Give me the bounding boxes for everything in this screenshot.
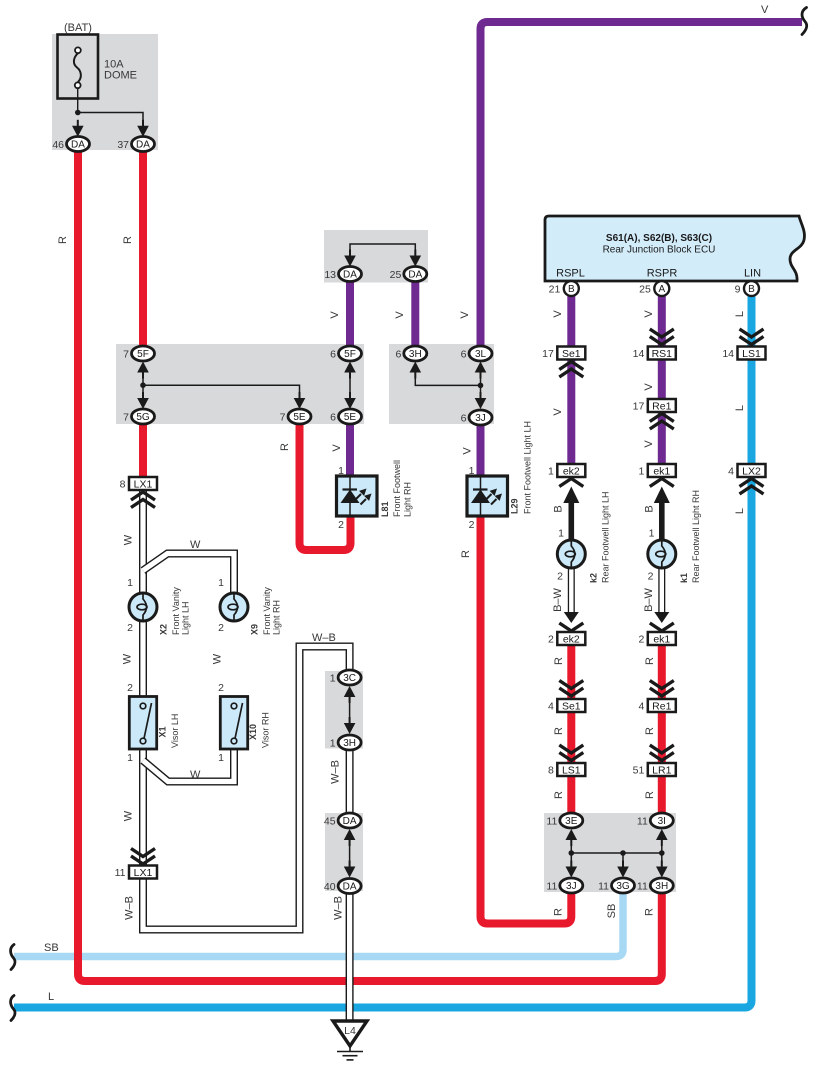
wire R 4-Re1 to 51-LR1: [658, 711, 666, 764]
gray block: junction connector 5F/5G/5E: [116, 344, 364, 424]
svg-text:1: 1: [649, 528, 655, 540]
wire W X2 to X1: [139, 620, 147, 697]
arrow up into 6-3L: [480, 366, 482, 379]
wire W-B 1-3H to 45-DA: [346, 748, 354, 814]
svg-text:2: 2: [648, 571, 654, 583]
connector oval 6 3L: [469, 346, 492, 361]
gray block: junction connector 3C/3H: [325, 671, 363, 749]
svg-text:3J: 3J: [475, 413, 486, 424]
gray block: fuse junction box DA: [52, 34, 158, 150]
junction dot 5F/5G/5E: [140, 382, 146, 388]
wire B-W bulb k1 to 2-ek1: [658, 567, 665, 614]
ECU pin 9 B: [744, 281, 759, 296]
connector oval 1 3H: [338, 735, 361, 750]
svg-text:DOME: DOME: [104, 70, 137, 82]
wire W vanity main LX1 to X2: [139, 491, 147, 594]
wire 7-5F to junction: [142, 372, 144, 398]
connector 4 Se1: [557, 699, 585, 712]
connector 11 LX1: [129, 866, 157, 879]
svg-text:V: V: [459, 311, 471, 319]
LED L29 Front Footwell Light LH: [467, 476, 508, 516]
svg-text:4: 4: [638, 701, 644, 713]
wire V 17-Re1 to 1-ek1: [658, 411, 666, 466]
junction dot fuse: [75, 110, 81, 116]
svg-text:5F: 5F: [344, 349, 356, 360]
connector 4 Re1: [648, 699, 676, 712]
wire V 13-DA to 6-5F: [346, 281, 354, 347]
svg-text:2: 2: [548, 634, 554, 646]
chevron above 4-Se1: [559, 681, 583, 689]
connector 1 ek1: [648, 464, 676, 477]
svg-text:DA: DA: [136, 140, 150, 151]
wire junction to 11-3I: [661, 840, 663, 853]
svg-text:6: 6: [330, 412, 336, 424]
svg-text:4: 4: [728, 466, 734, 478]
svg-text:Front Vanity: Front Vanity: [262, 587, 272, 635]
chevron B-W into 2-ek1: [650, 623, 674, 631]
wire B-W bulb k2 to 2-ek2: [568, 567, 575, 614]
wire 45-DA to 40-DA: [349, 840, 351, 866]
svg-text:3H: 3H: [409, 349, 422, 360]
svg-text:R: R: [553, 791, 565, 799]
svg-text:1: 1: [218, 577, 224, 589]
svg-text:S61(A), S62(B), S63(C): S61(A), S62(B), S63(C): [606, 233, 712, 244]
svg-text:1: 1: [218, 752, 224, 764]
svg-text:W–B: W–B: [333, 896, 345, 920]
svg-text:V: V: [761, 4, 769, 16]
svg-text:W: W: [212, 653, 224, 664]
svg-text:11: 11: [546, 816, 557, 828]
svg-text:3J: 3J: [566, 881, 577, 892]
svg-text:40: 40: [324, 881, 336, 893]
svg-text:6: 6: [461, 349, 467, 361]
connector 14 LS1: [738, 347, 766, 360]
connector 17 Re1: [648, 399, 676, 412]
connector 8 LX1: [129, 477, 157, 490]
wire V 14-RS1 to 17-Re1: [658, 358, 666, 401]
svg-text:R: R: [644, 791, 656, 799]
svg-text:11: 11: [546, 881, 557, 893]
svg-text:Re1: Re1: [652, 700, 671, 712]
svg-text:A: A: [658, 284, 665, 295]
svg-text:51: 51: [633, 765, 645, 777]
svg-text:L: L: [734, 405, 746, 411]
arrow into 25-DA: [414, 250, 416, 263]
torn edge mark left (L wire): [11, 996, 15, 1021]
svg-text:1: 1: [558, 528, 564, 540]
svg-text:Visor RH: Visor RH: [261, 712, 271, 748]
svg-text:11: 11: [115, 867, 126, 879]
svg-text:6: 6: [395, 349, 401, 361]
wire B 1-ek1 to bulb k1 (with arrowhead): [659, 500, 665, 541]
junction dot mid 3G: [620, 850, 626, 856]
arrowhead B-W wire k1 end: [654, 612, 669, 623]
svg-text:R: R: [553, 657, 565, 665]
arrow into 11-3G: [622, 861, 624, 874]
switch X10 Visor RH: [220, 697, 247, 750]
wire SB (sky blue) horizontal net: [14, 893, 623, 957]
chevron above 4-Re1: [650, 681, 674, 689]
svg-text:Front Footwell: Front Footwell: [392, 460, 402, 517]
wire 6-5F to 6-5E: [349, 372, 351, 398]
svg-text:3E: 3E: [565, 816, 578, 827]
connector oval 13 DA: [339, 267, 362, 282]
svg-text:2: 2: [127, 622, 133, 634]
svg-text:3H: 3H: [655, 881, 668, 892]
svg-text:ek1: ek1: [653, 633, 670, 645]
connector oval 45 DA: [338, 813, 361, 828]
svg-text:B–W: B–W: [552, 587, 564, 611]
wire junction to 6-3J: [480, 385, 482, 398]
svg-text:k2: k2: [589, 573, 599, 583]
svg-text:2: 2: [469, 519, 475, 531]
wire 11-3E to junction: [571, 840, 662, 853]
chevron below 4-LX2: [740, 486, 764, 494]
wire 1-3C to 1-3H: [349, 697, 351, 723]
ECU pin 25 A: [654, 281, 669, 296]
connector 1 ek2: [557, 464, 585, 477]
arrow into 37-DA: [142, 120, 144, 133]
svg-text:17: 17: [542, 348, 554, 360]
svg-text:1: 1: [638, 466, 644, 478]
svg-text:5G: 5G: [136, 412, 150, 423]
wire W branch to X9 (top): [143, 554, 234, 595]
connector 51 LR1: [648, 763, 676, 776]
svg-text:1: 1: [127, 752, 133, 764]
ground symbol L4: [333, 1021, 367, 1046]
svg-text:Se1: Se1: [562, 700, 581, 712]
svg-text:RSPL: RSPL: [556, 268, 585, 280]
wire R 2-ek1 to 4-Re1: [658, 644, 666, 699]
svg-text:V: V: [329, 311, 341, 319]
svg-text:4: 4: [548, 701, 554, 713]
svg-text:W: W: [123, 534, 135, 545]
svg-text:Se1: Se1: [562, 348, 581, 360]
svg-text:LX1: LX1: [134, 478, 153, 490]
chevron above 14-RS1: [650, 329, 674, 337]
svg-text:DA: DA: [408, 270, 422, 281]
svg-text:X1: X1: [158, 726, 168, 737]
svg-text:LS1: LS1: [742, 348, 761, 360]
svg-text:1: 1: [548, 466, 554, 478]
wire fuse output: [77, 88, 79, 112]
chevron below 1-ek2: [559, 479, 583, 487]
wire R 8-LS1 to 11-3E: [567, 775, 575, 814]
wire L LIN 9-B to 14-LS1: [748, 295, 756, 348]
svg-text:R: R: [644, 727, 656, 735]
svg-text:2: 2: [557, 571, 563, 583]
arrow into 7-5E: [299, 392, 301, 405]
svg-text:R: R: [122, 236, 134, 244]
junction dot right 3I/3H: [659, 850, 665, 856]
gray block: junction connector 3H/3L/3J: [389, 344, 494, 424]
wire V RSPR 25-A to 14-RS1: [658, 295, 666, 348]
chevron below 1-ek1: [650, 479, 674, 487]
svg-text:V: V: [552, 408, 564, 416]
connector oval 11 3I: [650, 813, 673, 828]
chevron below 8-LX1: [131, 500, 155, 508]
connector oval 1 3C: [338, 670, 361, 685]
connector oval 6 3J: [469, 410, 492, 425]
wire R 4-Se1 to 8-LS1: [567, 711, 575, 764]
chevron above 11-LX1: [131, 849, 155, 857]
wire junction to 11-3G: [622, 853, 624, 866]
svg-text:DA: DA: [343, 816, 357, 827]
svg-text:ek1: ek1: [653, 465, 670, 477]
svg-text:8: 8: [120, 479, 126, 491]
svg-text:1: 1: [330, 673, 336, 685]
svg-text:LX1: LX1: [134, 867, 153, 879]
svg-text:45: 45: [324, 816, 336, 828]
chevron B-W into 2-ek2: [559, 623, 583, 631]
connector 4 LX2: [738, 464, 766, 477]
svg-text:Light RH: Light RH: [272, 600, 282, 635]
arrow up into 1-3C: [349, 690, 351, 703]
svg-text:B: B: [568, 284, 575, 295]
connector oval 40 DA: [338, 879, 361, 894]
svg-text:Light RH: Light RH: [403, 482, 413, 517]
connector oval 11 3J: [560, 878, 583, 893]
chevron below 17-Re1: [650, 421, 674, 429]
wire V 6-3J to L29 pin1: [477, 424, 485, 478]
svg-text:1: 1: [330, 738, 336, 750]
arrow up into 7-5F: [142, 366, 144, 379]
svg-text:2: 2: [218, 622, 224, 634]
svg-text:5E: 5E: [344, 412, 357, 423]
svg-text:ek2: ek2: [563, 465, 580, 477]
svg-text:V: V: [552, 310, 564, 318]
arrow into 1-3H: [349, 717, 351, 730]
connector oval 7 5F: [132, 346, 155, 361]
arrow up into 6-5F: [349, 366, 351, 379]
svg-text:W–B: W–B: [312, 632, 336, 644]
svg-text:ek2: ek2: [563, 633, 580, 645]
svg-text:W: W: [190, 539, 201, 551]
svg-text:L81: L81: [380, 501, 390, 517]
wire W branch from X10 (bottom): [143, 748, 234, 782]
arrow into 7-5G: [142, 392, 144, 405]
svg-text:5E: 5E: [293, 412, 306, 423]
wire R 7-5E to L81 pin2: [300, 423, 351, 550]
arrow into 6-5E: [349, 392, 351, 405]
svg-text:B–W: B–W: [643, 587, 655, 611]
svg-text:1: 1: [469, 465, 475, 477]
connector oval 37 DA: [132, 137, 155, 152]
svg-text:8: 8: [548, 765, 554, 777]
svg-text:SB: SB: [44, 942, 59, 954]
wire junction to 7-5E: [143, 385, 300, 398]
arrowhead B-W wire k2 end: [564, 612, 579, 623]
svg-text:2: 2: [638, 634, 644, 646]
svg-text:L29: L29: [510, 498, 520, 514]
switch X1 Visor LH: [129, 697, 156, 750]
connector oval 11 3G: [612, 878, 635, 893]
svg-text:R: R: [279, 443, 291, 451]
svg-text:2: 2: [338, 519, 344, 531]
connector oval 25 DA: [404, 267, 427, 282]
chevron above 14-LS1: [740, 329, 764, 337]
svg-text:Visor LH: Visor LH: [170, 714, 180, 748]
svg-text:W–B: W–B: [330, 760, 342, 784]
bulb X2 Front Vanity Light LH: [129, 593, 157, 621]
torn edge mark left (SB wire): [11, 945, 15, 970]
svg-text:6: 6: [330, 349, 336, 361]
svg-text:17: 17: [633, 401, 645, 413]
wire junction to 11-3J: [570, 853, 572, 866]
svg-text:R: R: [644, 657, 656, 665]
svg-text:3H: 3H: [343, 738, 356, 749]
svg-text:25: 25: [639, 284, 651, 296]
connector 2 ek2: [557, 632, 585, 645]
svg-text:2: 2: [127, 682, 133, 694]
svg-text:5F: 5F: [137, 349, 149, 360]
svg-text:7: 7: [280, 412, 286, 424]
connector oval 46 DA: [67, 137, 90, 152]
wire L 14-LS1 to 4-LX2: [748, 358, 756, 466]
arrow into 13-DA: [349, 250, 351, 263]
wire R 37-DA to 7-5F: [139, 150, 147, 347]
svg-text:RS1: RS1: [652, 348, 673, 360]
svg-text:R: R: [553, 727, 565, 735]
svg-text:Re1: Re1: [652, 400, 671, 412]
svg-text:9: 9: [735, 284, 741, 296]
wire V 6-5E to L81 pin1: [346, 423, 354, 478]
arrow up into 45-DA: [349, 833, 351, 846]
arrow into 46-DA: [77, 120, 79, 133]
svg-text:B: B: [644, 505, 656, 512]
svg-text:7: 7: [123, 412, 129, 424]
wire W-B 11-LX1 loop to 1-3C: [143, 647, 350, 930]
connector 2 ek1: [648, 632, 676, 645]
svg-text:37: 37: [117, 139, 129, 151]
svg-text:V: V: [462, 447, 474, 455]
svg-text:11: 11: [598, 881, 609, 893]
svg-text:W: W: [122, 653, 134, 664]
wire V 17-Se1 to 1-ek2: [567, 358, 575, 466]
arrow up into 6-3H: [414, 366, 416, 379]
wire V main feed from top edge to 6-3L: [481, 22, 803, 347]
chevron below 17-Se1: [559, 369, 583, 377]
svg-text:21: 21: [549, 284, 561, 296]
gray block: connector DA (13/25): [324, 230, 428, 283]
svg-text:R: R: [553, 908, 565, 916]
wire V 25-DA to 6-3H: [411, 281, 419, 347]
svg-text:Rear Junction Block ECU: Rear Junction Block ECU: [603, 245, 716, 256]
connector oval 11 3H: [650, 878, 673, 893]
ECU block S61/S62/S63 Rear Junction Block ECU: [545, 216, 804, 281]
wire junction to 11-3H: [661, 853, 663, 866]
fuse DOME 10A: [58, 35, 99, 99]
connector oval 7 5E: [288, 409, 311, 424]
gray block: connector DA (45/40): [325, 813, 363, 891]
arrow into 40-DA: [349, 861, 351, 874]
svg-text:W–B: W–B: [124, 896, 136, 920]
svg-text:Front Footwell Light LH: Front Footwell Light LH: [523, 421, 533, 514]
svg-text:R: R: [57, 236, 69, 244]
bulb X9 Front Vanity Light RH: [220, 593, 248, 621]
connector oval 11 3E: [560, 813, 583, 828]
svg-text:LX2: LX2: [742, 465, 761, 477]
connector oval 6 3H: [404, 346, 427, 361]
svg-text:X9: X9: [250, 624, 260, 635]
wire junction to 6-3L: [480, 373, 482, 385]
LED L81 Front Footwell Light RH: [337, 476, 378, 516]
bulb k1 Rear Footwell Light RH: [648, 540, 676, 568]
svg-text:LS1: LS1: [562, 764, 581, 776]
wire 6-3H to junction: [415, 372, 480, 385]
junction dot left 3E/3J: [569, 850, 575, 856]
junction dot 3L/3J: [478, 383, 484, 389]
svg-text:V: V: [331, 444, 343, 452]
svg-text:6: 6: [461, 413, 467, 425]
svg-text:DA: DA: [343, 882, 357, 893]
wire B 1-ek2 to bulb k2 (with arrowhead): [568, 500, 574, 541]
arrow into 6-3J: [480, 392, 482, 405]
svg-text:11: 11: [637, 881, 648, 893]
svg-text:V: V: [643, 383, 655, 391]
svg-text:LIN: LIN: [744, 268, 761, 280]
arrow up into 11-3I: [661, 833, 663, 846]
wire V RSPL 21-B to 17-Se1: [567, 295, 575, 348]
connector 17 Se1: [557, 347, 585, 360]
arrow into 11-3J: [570, 861, 572, 874]
svg-text:LR1: LR1: [652, 764, 671, 776]
svg-text:Rear Footwell Light LH: Rear Footwell Light LH: [601, 491, 611, 583]
svg-text:3I: 3I: [658, 816, 666, 827]
arrow into 11-3H: [661, 861, 663, 874]
connector oval 6 5E: [339, 409, 362, 424]
svg-text:k1: k1: [679, 573, 689, 583]
svg-text:13: 13: [324, 269, 336, 281]
chevron above 51-LR1: [650, 745, 674, 753]
wire bracket 13-DA/25-DA: [350, 244, 415, 256]
connector 14 RS1: [648, 347, 676, 360]
svg-text:3L: 3L: [475, 349, 487, 360]
wire R 51-LR1 to 11-3I: [658, 775, 666, 814]
wire W-B 40-DA to ground L4: [346, 891, 354, 1022]
connector 8 LS1: [557, 763, 585, 776]
svg-text:1: 1: [338, 465, 344, 477]
svg-text:W: W: [190, 769, 201, 781]
svg-text:7: 7: [123, 349, 129, 361]
connector oval 7 5G: [132, 409, 155, 424]
svg-text:RSPR: RSPR: [647, 268, 678, 280]
svg-text:DA: DA: [71, 140, 85, 151]
svg-text:L: L: [734, 508, 746, 514]
torn edge mark top right (V wire): [802, 8, 807, 35]
svg-text:L: L: [48, 991, 54, 1003]
svg-text:1: 1: [127, 577, 133, 589]
svg-text:11: 11: [637, 816, 648, 828]
wire R 2-ek2 to 4-Se1: [567, 644, 575, 699]
chevron above 8-LS1: [559, 745, 583, 753]
svg-text:SB: SB: [606, 904, 618, 919]
wire fuse to 37-DA branch: [78, 113, 143, 125]
svg-text:3G: 3G: [616, 881, 630, 892]
svg-text:Rear Footwell Light RH: Rear Footwell Light RH: [691, 490, 701, 583]
wire R from 46-DA down, along bottom, up to 11-3H: [78, 150, 662, 981]
svg-text:2: 2: [218, 682, 224, 694]
svg-text:B: B: [553, 505, 565, 512]
svg-text:V: V: [394, 311, 406, 319]
bulb k2 Rear Footwell Light LH: [557, 540, 585, 568]
connector oval 6 5F: [339, 346, 362, 361]
svg-text:W: W: [123, 810, 135, 821]
svg-text:L4: L4: [344, 1025, 356, 1037]
svg-text:46: 46: [52, 139, 64, 151]
gray block: junction connector 3E/3I/3J/3G/3H: [544, 813, 676, 892]
svg-text:Front Vanity: Front Vanity: [171, 587, 181, 635]
